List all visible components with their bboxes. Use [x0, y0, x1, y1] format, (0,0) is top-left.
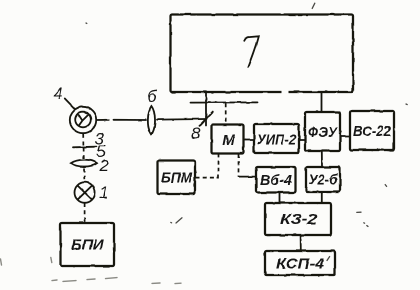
svg-text:б: б [147, 87, 158, 106]
svg-text:БПМ: БПМ [161, 170, 192, 187]
tick 3 [73, 146, 97, 149]
svg-text:М: М [222, 132, 235, 149]
wire KZ-2 to KSP-4 [300, 235, 302, 251]
block BPI [61, 223, 115, 266]
block U2-6 [306, 167, 340, 192]
dashed wire M down [238, 154, 240, 176]
block BPM [158, 161, 196, 195]
svg-text:КСП-4: КСП-4 [276, 256, 325, 273]
svg-text:УИП-2: УИП-2 [257, 132, 297, 149]
block FEU [305, 112, 340, 151]
exit axis from box 7 to PMT [321, 93, 323, 113]
block VS-22 [350, 111, 394, 150]
modulator 1: circle with X [75, 182, 96, 203]
svg-text:ВС-22: ВС-22 [353, 123, 392, 140]
svg-text:У2-б: У2-б [309, 172, 339, 189]
beam lens to slit [157, 118, 207, 121]
wire UIP-2 to FEU [299, 139, 305, 141]
wire V6-4 to KZ-2 [279, 193, 281, 204]
dashed axis: modulator to BPI [84, 204, 86, 223]
block M [212, 125, 244, 154]
svg-text:8: 8 [191, 124, 201, 143]
slit plane line [191, 101, 258, 103]
svg-text:БПИ: БПИ [71, 237, 104, 254]
lens 2 (horizontal) [71, 160, 97, 167]
block KZ-2 [265, 203, 331, 235]
lamp source (4) double circle [70, 107, 96, 133]
lens 6 (vertical) [148, 106, 155, 135]
scan break on box 7 bottom edge [282, 90, 289, 94]
svg-text:КЗ-2: КЗ-2 [280, 211, 318, 228]
dashed axis: lamp to tick 3 [82, 134, 84, 147]
block UIP-2 [254, 124, 299, 153]
svg-text:ФЭУ: ФЭУ [308, 124, 339, 141]
svg-text:1: 1 [99, 183, 108, 202]
wire M to UIP-2 [244, 139, 255, 141]
stray speckles [86, 3, 407, 260]
dashed axis: lens 2 to modulator 1 [83, 168, 85, 182]
dashed wire BPM to M [196, 154, 219, 178]
svg-text:2: 2 [99, 156, 110, 175]
label 7 [244, 36, 258, 67]
label 4 leader line [65, 99, 75, 109]
dashed wire slit plane to M [225, 103, 227, 124]
wire to V6-4 [239, 176, 257, 178]
beam lamp to lens [97, 119, 147, 121]
vertical entrance axis from box 7 [205, 93, 207, 126]
lamp filament mark [78, 114, 89, 126]
svg-text:4: 4 [54, 84, 63, 103]
monochromator box 7 [171, 15, 354, 93]
wire FEU to VS-22 [340, 136, 350, 138]
wire FEU to U2-6 [321, 151, 323, 167]
block V6-4 [256, 167, 296, 193]
wire U2-6 to KZ-2 [321, 192, 323, 203]
faint bottom marks [1, 257, 182, 283]
slash mark 8 [200, 112, 213, 126]
block KSP-4 [265, 251, 335, 275]
dashed axis: tick to lens 2 [83, 148, 85, 159]
svg-text:Вб-4: Вб-4 [260, 172, 293, 189]
